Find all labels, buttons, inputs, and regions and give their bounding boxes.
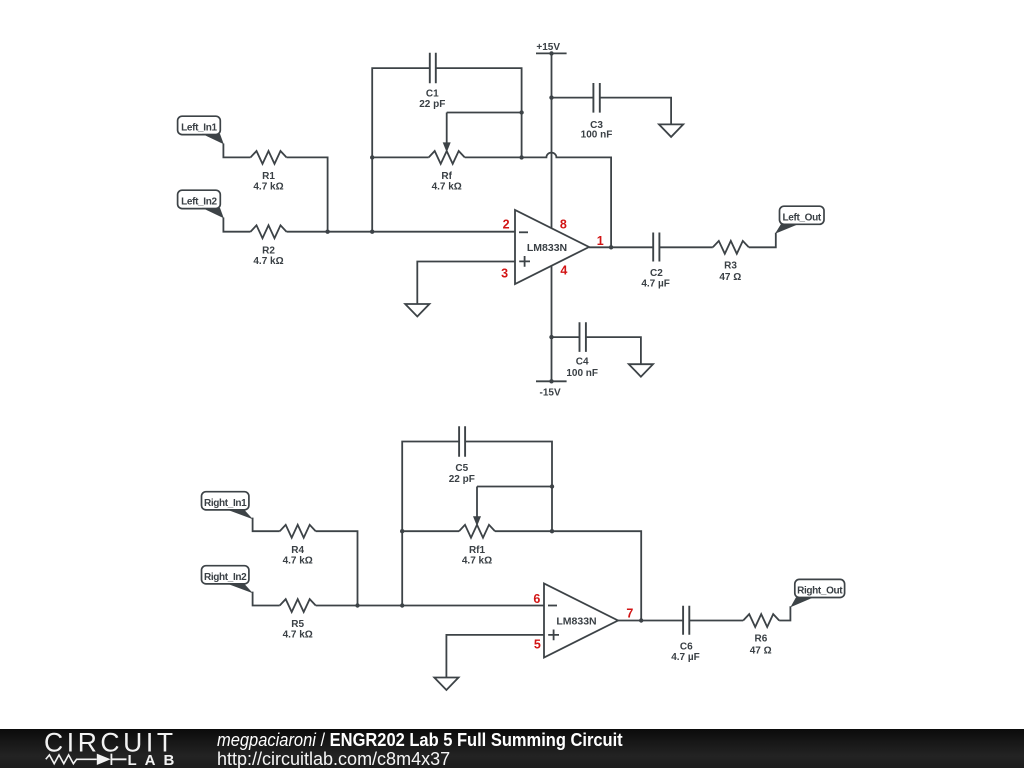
wire C5 right to vertical bbox=[465, 442, 552, 532]
potentiometer Rf1 bbox=[459, 525, 495, 538]
wire Rf to feedback with hop over V+ bbox=[465, 153, 611, 248]
svg-text:LM833N: LM833N bbox=[556, 615, 596, 627]
wire V- to C4 bbox=[552, 336, 580, 338]
svg-text:4.7 kΩ: 4.7 kΩ bbox=[253, 256, 283, 267]
svg-text:7: 7 bbox=[626, 606, 633, 620]
wire pin5 to ground bbox=[446, 635, 544, 678]
wire V+ rail down to pin8 bbox=[551, 53, 553, 228]
node junction C5 branch bbox=[400, 603, 404, 607]
svg-text:Left_In1: Left_In1 bbox=[181, 122, 217, 133]
flag Left_Out bbox=[775, 206, 824, 234]
svg-text:+15V: +15V bbox=[536, 42, 560, 53]
svg-text:Rf: Rf bbox=[441, 171, 452, 182]
wire C6 to R6 bbox=[690, 620, 744, 622]
pot Rf1 wiper arrow bbox=[476, 487, 478, 518]
svg-text:5: 5 bbox=[534, 637, 541, 651]
wire V+ to C3 bbox=[552, 97, 594, 99]
wire C2 to R3 bbox=[660, 246, 713, 248]
flag Left_In2 bbox=[178, 190, 224, 218]
node junction output pin7 bbox=[639, 618, 643, 622]
node junction output pin1 bbox=[609, 245, 613, 249]
svg-text:47 Ω: 47 Ω bbox=[750, 645, 772, 656]
node junction R4/R5 bbox=[355, 603, 359, 607]
resistor R4 bbox=[280, 525, 316, 538]
wire Rf1 to output feedback bbox=[495, 531, 641, 620]
svg-text:4.7 kΩ: 4.7 kΩ bbox=[462, 555, 492, 566]
capacitor C6 bbox=[683, 606, 689, 635]
wire pin4 to V- rail bbox=[551, 266, 553, 382]
svg-text:100 nF: 100 nF bbox=[581, 130, 613, 141]
svg-text:megpaciaroni / ENGR202 Lab 5 F: megpaciaroni / ENGR202 Lab 5 Full Summin… bbox=[217, 729, 623, 750]
node junction Rf line left bbox=[370, 155, 374, 159]
capacitor C5 bbox=[459, 426, 465, 456]
svg-text:4.7 kΩ: 4.7 kΩ bbox=[283, 630, 313, 641]
wire C1 left branch bbox=[372, 68, 429, 232]
svg-text:4: 4 bbox=[560, 264, 567, 278]
svg-text:2: 2 bbox=[503, 218, 510, 232]
svg-text:C1: C1 bbox=[426, 89, 439, 100]
wire Left_In2 to R2 bbox=[223, 218, 250, 232]
wire Right_In1 to R4 bbox=[253, 518, 280, 532]
wire C3 to ground bbox=[600, 98, 671, 125]
svg-text:R5: R5 bbox=[291, 619, 304, 630]
capacitor C4 bbox=[580, 322, 586, 352]
resistor R3 bbox=[713, 241, 749, 254]
svg-text:C4: C4 bbox=[576, 357, 589, 368]
wire R1 to inverting node bbox=[287, 157, 328, 231]
flag Left_In1 bbox=[178, 116, 224, 144]
svg-text:22 pF: 22 pF bbox=[449, 474, 475, 485]
power -15V bbox=[536, 379, 567, 398]
op-amp U1 LM833N bbox=[515, 210, 589, 284]
ground pin3 bbox=[405, 304, 429, 317]
wire summing line to op-amp pin2 bbox=[287, 231, 516, 233]
wire Left_In1 to R1 bbox=[223, 144, 250, 158]
svg-text:3: 3 bbox=[501, 266, 508, 280]
svg-text:1: 1 bbox=[597, 234, 604, 248]
svg-text:http://circuitlab.com/c8m4x37: http://circuitlab.com/c8m4x37 bbox=[217, 749, 450, 768]
svg-text:Left_In2: Left_In2 bbox=[181, 196, 217, 207]
node junction wiper bbox=[519, 110, 523, 114]
resistor R6 bbox=[743, 614, 779, 627]
svg-text:4.7 kΩ: 4.7 kΩ bbox=[283, 555, 313, 566]
wire wiper to C5 vertical bbox=[477, 486, 552, 488]
svg-text:4.7 kΩ: 4.7 kΩ bbox=[432, 182, 462, 193]
node junction wiper lower bbox=[550, 484, 554, 488]
capacitor C1 bbox=[430, 53, 436, 83]
svg-text:Right_Out: Right_Out bbox=[797, 586, 843, 597]
power +15V bbox=[536, 42, 567, 56]
svg-text:R3: R3 bbox=[724, 260, 737, 271]
svg-text:Right_In1: Right_In1 bbox=[204, 498, 247, 509]
potentiometer Rf bbox=[429, 151, 465, 164]
svg-text:LAB: LAB bbox=[128, 752, 183, 768]
svg-text:47 Ω: 47 Ω bbox=[719, 272, 741, 283]
resistor R2 bbox=[251, 225, 287, 238]
resistor R1 bbox=[251, 151, 287, 164]
node junction C3 tap bbox=[549, 95, 553, 99]
svg-text:C2: C2 bbox=[650, 268, 663, 279]
svg-text:22 pF: 22 pF bbox=[419, 99, 445, 110]
svg-text:R1: R1 bbox=[262, 171, 275, 182]
wire output to C6 bbox=[618, 620, 683, 622]
node junction C1 branch bbox=[370, 230, 374, 234]
wire Rf1 left lead bbox=[402, 530, 459, 532]
svg-text:C5: C5 bbox=[455, 463, 468, 474]
capacitor C3 bbox=[593, 83, 599, 113]
ground C4 bbox=[629, 364, 653, 377]
svg-text:Rf1: Rf1 bbox=[469, 545, 486, 556]
node junction Rf line right bbox=[519, 155, 523, 159]
logo diode bbox=[97, 754, 111, 765]
svg-text:Left_Out: Left_Out bbox=[783, 212, 822, 223]
svg-text:C6: C6 bbox=[680, 641, 693, 652]
svg-text:4.7 kΩ: 4.7 kΩ bbox=[253, 182, 283, 193]
wire Rf line left lead bbox=[372, 156, 429, 158]
wire summing line to op-amp pin6 bbox=[316, 605, 544, 607]
svg-text:Right_In2: Right_In2 bbox=[204, 572, 247, 583]
wire C1 right to vertical bbox=[436, 68, 522, 157]
node junction R1/R2 bbox=[325, 230, 329, 234]
svg-text:R6: R6 bbox=[755, 634, 768, 645]
wire R6 to Right_Out bbox=[779, 606, 790, 620]
node junction Rf1 line left bbox=[400, 529, 404, 533]
wire R4 to summing node bbox=[316, 531, 358, 605]
ground pin5 bbox=[434, 678, 458, 691]
svg-text:6: 6 bbox=[533, 592, 540, 606]
op-amp U2 LM833N bbox=[544, 584, 618, 658]
svg-text:100 nF: 100 nF bbox=[566, 368, 598, 379]
CircuitLab logo wordmark bbox=[44, 728, 182, 768]
svg-text:R4: R4 bbox=[291, 545, 304, 556]
wire R3 to Left_Out bbox=[749, 233, 776, 248]
svg-text:-15V: -15V bbox=[540, 388, 561, 399]
capacitor C2 bbox=[653, 233, 659, 262]
logo resistor zigzag bbox=[46, 755, 97, 764]
wire C5 left branch bbox=[402, 442, 459, 606]
resistor R5 bbox=[280, 599, 316, 612]
svg-text:8: 8 bbox=[560, 218, 567, 232]
wire C4 to ground bbox=[586, 337, 641, 364]
wire output to C2 bbox=[589, 246, 653, 248]
pot Rf wiper arrow bbox=[446, 113, 448, 145]
ground C3 bbox=[659, 124, 683, 136]
node junction Rf1 line right bbox=[550, 529, 554, 533]
wire wiper to C1 vertical bbox=[447, 112, 522, 114]
node junction C4 tap bbox=[549, 335, 553, 339]
svg-text:4.7 µF: 4.7 µF bbox=[671, 652, 700, 663]
flag Right_In2 bbox=[202, 566, 253, 594]
svg-text:R2: R2 bbox=[262, 245, 275, 256]
wire pin3 to ground bbox=[417, 262, 515, 305]
svg-text:4.7 µF: 4.7 µF bbox=[641, 279, 670, 290]
flag Right_In1 bbox=[202, 492, 253, 520]
flag Right_Out bbox=[790, 579, 844, 607]
wire Right_In2 to R5 bbox=[253, 592, 280, 606]
svg-text:LM833N: LM833N bbox=[527, 242, 567, 254]
